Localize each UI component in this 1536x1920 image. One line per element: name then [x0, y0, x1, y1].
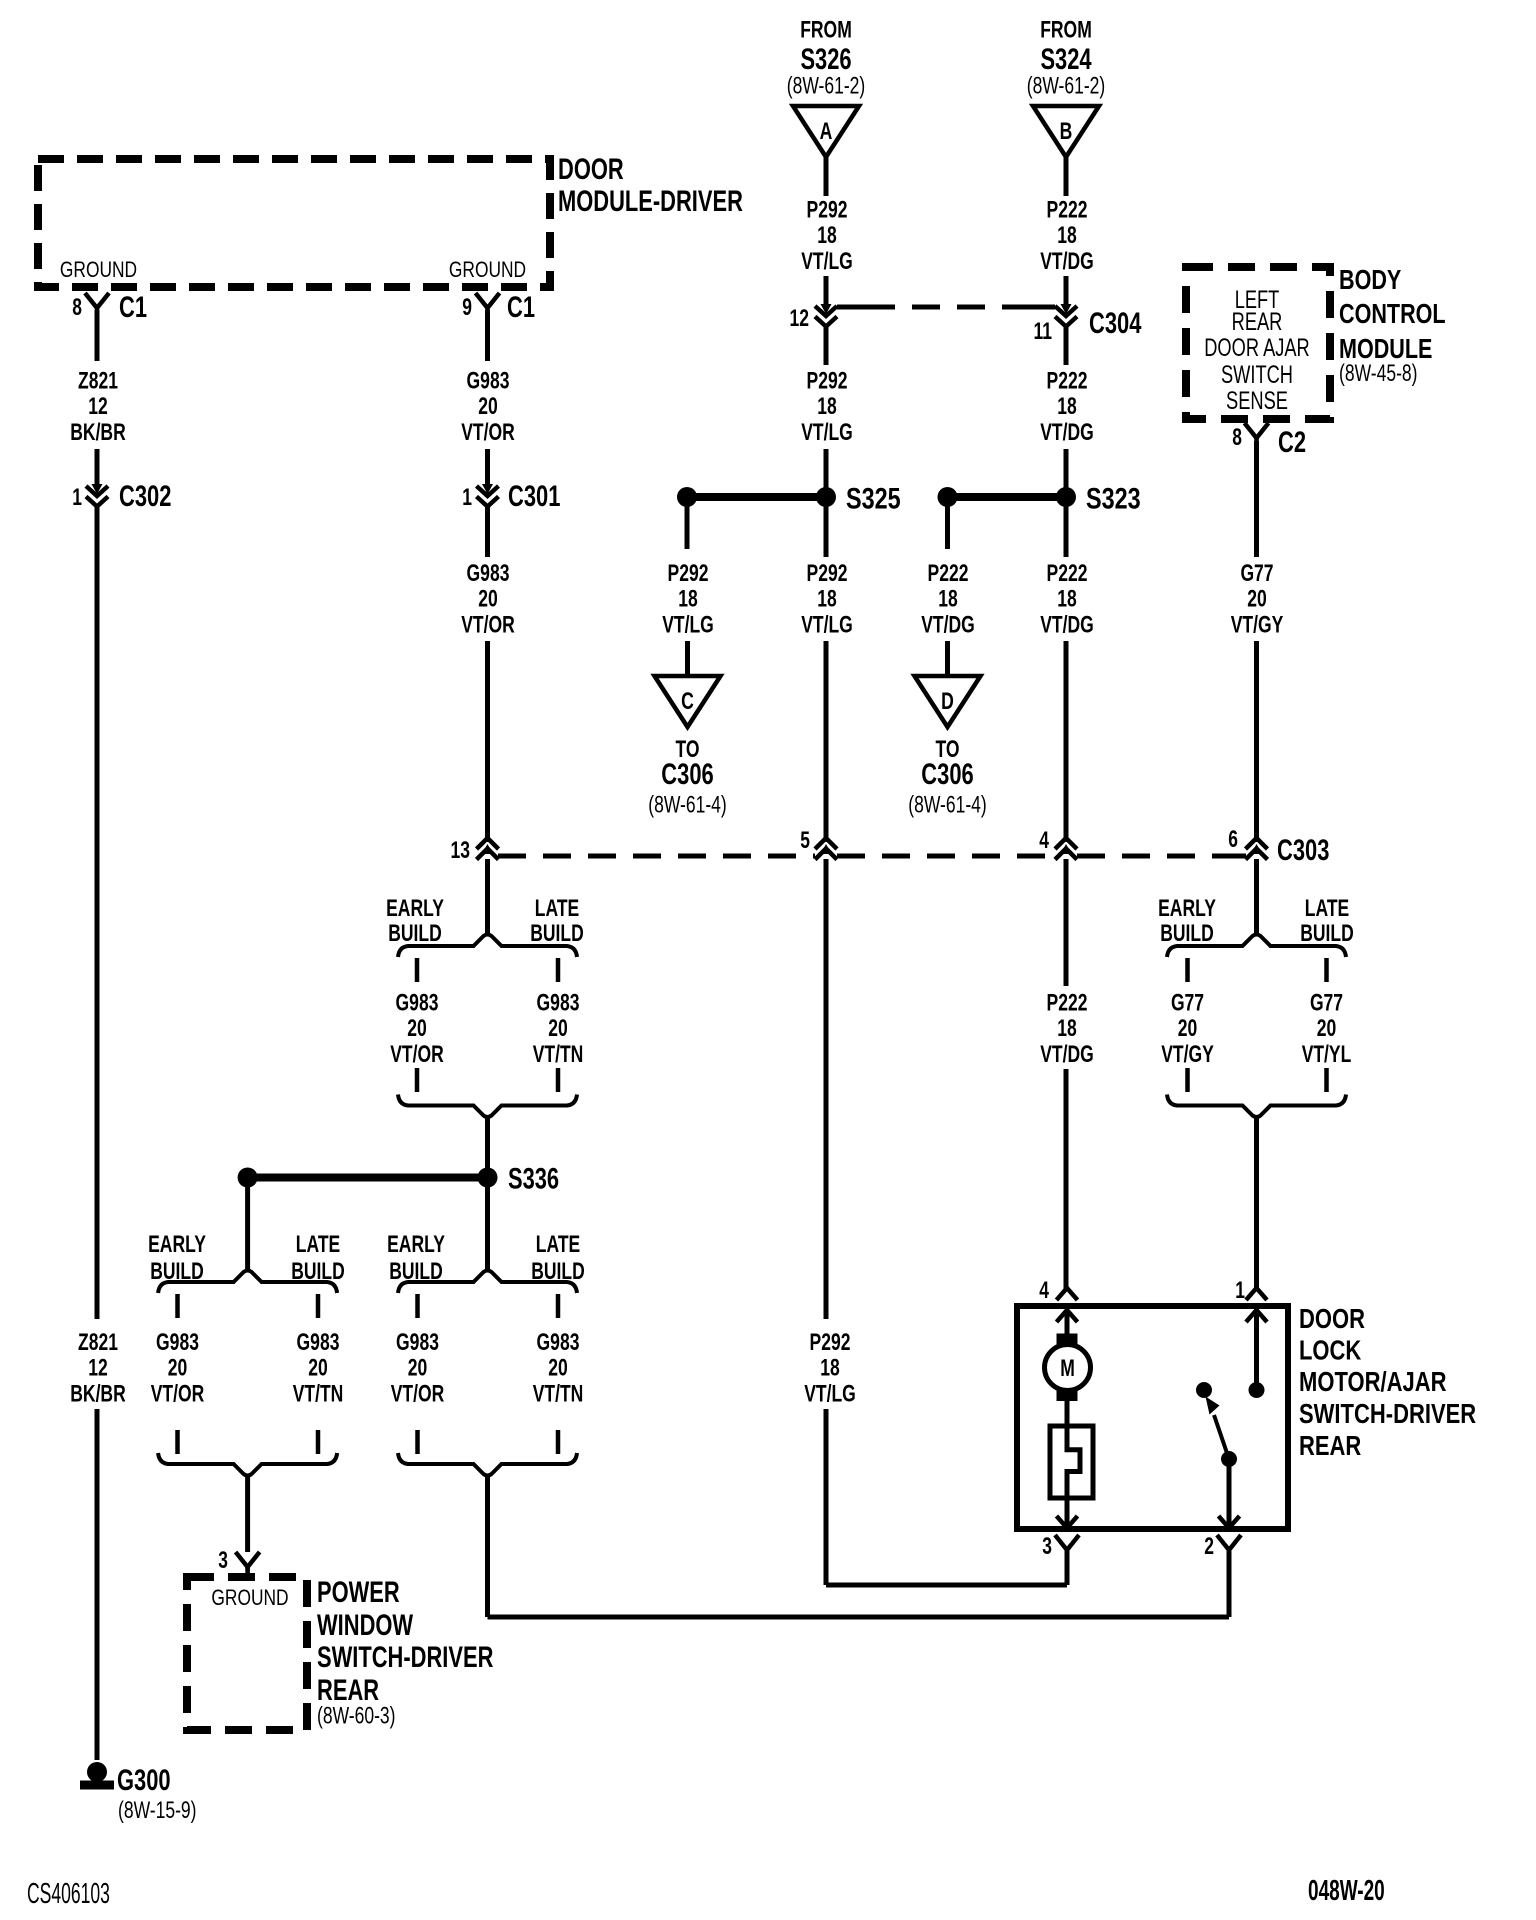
svg-text:20: 20: [1178, 1015, 1198, 1042]
svg-text:BODY: BODY: [1339, 264, 1402, 295]
svg-text:S336: S336: [508, 1163, 559, 1196]
splice S323: [938, 487, 958, 507]
svg-text:BK/BR: BK/BR: [70, 1380, 126, 1407]
svg-text:18: 18: [678, 586, 698, 613]
svg-text:C304: C304: [1089, 307, 1142, 340]
svg-text:3: 3: [1042, 1533, 1052, 1560]
wire P222 seg5: [1064, 641, 1069, 842]
svg-text:18: 18: [1057, 586, 1077, 613]
svg-text:G77: G77: [1240, 560, 1273, 587]
wire P222 seg7: [1064, 1069, 1069, 1289]
svg-text:REAR: REAR: [1299, 1430, 1361, 1461]
svg-text:VT/LG: VT/LG: [801, 248, 853, 275]
svg-text:P292: P292: [807, 197, 848, 224]
svg-text:P222: P222: [928, 560, 969, 587]
wire Z821 seg3: [95, 507, 100, 1319]
svg-text:(8W-15-9): (8W-15-9): [118, 1797, 197, 1824]
svg-text:SWITCH-DRIVER: SWITCH-DRIVER: [317, 1641, 494, 1674]
wire P292 seg3: [824, 327, 829, 365]
svg-text:12: 12: [790, 305, 810, 332]
svg-text:C302: C302: [119, 480, 171, 513]
wire S325 left stub: [685, 497, 690, 549]
brace split (S336 right): [398, 1271, 577, 1294]
brace merge (G77): [1167, 1095, 1346, 1118]
svg-text:LOCK: LOCK: [1299, 1335, 1361, 1366]
wire G983 seg1: [485, 310, 490, 361]
stub S336 r-late: [556, 1294, 561, 1318]
svg-text:(8W-61-2): (8W-61-2): [787, 73, 866, 100]
svg-text:SWITCH-DRIVER: SWITCH-DRIVER: [1299, 1398, 1476, 1429]
svg-text:1: 1: [462, 484, 472, 511]
svg-text:BUILD: BUILD: [388, 920, 442, 947]
svg-text:C: C: [681, 688, 694, 715]
svg-text:4: 4: [1039, 827, 1049, 854]
svg-text:WINDOW: WINDOW: [317, 1609, 414, 1642]
svg-text:MODULE-DRIVER: MODULE-DRIVER: [558, 185, 743, 218]
svg-text:LATE: LATE: [536, 1231, 580, 1258]
svg-text:G77: G77: [1171, 990, 1204, 1017]
svg-text:18: 18: [817, 222, 837, 249]
svg-text:VT/GY: VT/GY: [1231, 611, 1284, 638]
ground G300 symbol: [87, 1762, 107, 1782]
wire to pin3 ground: [245, 1477, 250, 1552]
svg-text:BUILD: BUILD: [1300, 920, 1354, 947]
svg-text:LATE: LATE: [296, 1231, 340, 1258]
svg-text:C301: C301: [508, 480, 560, 513]
stub S336 l-late lower: [316, 1430, 321, 1454]
stub G77 late lower: [1324, 1068, 1329, 1092]
svg-text:MOTOR/AJAR: MOTOR/AJAR: [1299, 1366, 1447, 1397]
svg-text:G983: G983: [297, 1329, 340, 1356]
svg-text:VT/LG: VT/LG: [804, 1380, 856, 1407]
wire stub early G983: [415, 958, 420, 982]
svg-text:G983: G983: [396, 990, 439, 1017]
stub S336 r-early lower: [415, 1430, 420, 1454]
connector pin 3 (power window): [236, 1552, 260, 1567]
wire S336 left stub: [245, 1177, 250, 1270]
wire pin2 inside box: [1227, 1465, 1232, 1526]
svg-text:VT/OR: VT/OR: [461, 419, 515, 446]
svg-text:BUILD: BUILD: [531, 1258, 585, 1285]
svg-text:(8W-61-4): (8W-61-4): [648, 792, 727, 819]
wire G77 seg1: [1254, 441, 1259, 557]
connector C1 pin 8 (Y): [85, 293, 109, 308]
svg-text:P292: P292: [810, 1329, 851, 1356]
svg-text:VT/DG: VT/DG: [1040, 248, 1094, 275]
svg-text:FROM: FROM: [1040, 17, 1092, 44]
svg-text:VT/OR: VT/OR: [461, 611, 515, 638]
connector C304 pin 12: [821, 304, 832, 314]
wire pin3 inside box: [1065, 1498, 1070, 1526]
motor M (door lock): [1065, 1310, 1070, 1334]
wire P222 seg3: [1064, 327, 1069, 365]
svg-text:20: 20: [548, 1355, 568, 1382]
module box DOOR LOCK MOTOR/AJAR SWITCH-DRIVER REAR: [1017, 1306, 1288, 1529]
svg-text:18: 18: [1057, 393, 1077, 420]
svg-text:C303: C303: [1277, 834, 1329, 867]
wire Z821 seg1: [95, 310, 100, 361]
svg-text:C306: C306: [921, 758, 973, 791]
connector C303 pin 13: [482, 844, 493, 854]
svg-text:A: A: [820, 118, 833, 145]
svg-text:6: 6: [1228, 826, 1238, 853]
svg-text:20: 20: [1317, 1015, 1337, 1042]
svg-text:C306: C306: [661, 758, 713, 791]
stub G77 early lower: [1185, 1068, 1190, 1092]
svg-text:FROM: FROM: [800, 17, 852, 44]
wire G77 seg4: [1254, 1118, 1259, 1289]
svg-text:20: 20: [548, 1015, 568, 1042]
svg-text:C1: C1: [119, 291, 147, 324]
svg-text:048W-20: 048W-20: [1308, 1875, 1385, 1907]
stub S336 l-early lower: [175, 1430, 180, 1454]
svg-text:VT/LG: VT/LG: [801, 611, 853, 638]
svg-text:BK/BR: BK/BR: [70, 419, 126, 446]
svg-text:BUILD: BUILD: [530, 920, 584, 947]
svg-text:18: 18: [1057, 1015, 1077, 1042]
svg-text:P292: P292: [807, 560, 848, 587]
svg-text:P222: P222: [1047, 560, 1088, 587]
svg-text:S326: S326: [800, 43, 851, 76]
svg-text:EARLY: EARLY: [148, 1231, 206, 1258]
svg-text:DOOR: DOOR: [1299, 1303, 1365, 1334]
wire P222 seg1: [1064, 157, 1069, 196]
svg-text:18: 18: [820, 1355, 840, 1382]
stub S336 r-late lower: [556, 1430, 561, 1454]
svg-text:EARLY: EARLY: [1158, 895, 1216, 922]
svg-text:20: 20: [407, 1015, 427, 1042]
svg-text:P222: P222: [1047, 368, 1088, 395]
wire P222 seg6: [1064, 859, 1069, 986]
svg-text:CONTROL: CONTROL: [1339, 298, 1446, 329]
svg-text:11: 11: [1034, 318, 1053, 345]
svg-text:SWITCH: SWITCH: [1221, 361, 1293, 389]
stub G77 late: [1324, 958, 1329, 982]
svg-text:BUILD: BUILD: [1160, 920, 1214, 947]
svg-text:20: 20: [408, 1355, 428, 1382]
wire P292 seg6: [824, 859, 829, 1319]
svg-text:VT/DG: VT/DG: [1040, 611, 1094, 638]
svg-text:18: 18: [817, 393, 837, 420]
svg-text:G983: G983: [467, 560, 510, 587]
wire P292 seg7: [824, 1409, 829, 1585]
svg-text:G983: G983: [537, 990, 580, 1017]
off-page arrow B: [1033, 106, 1099, 157]
svg-text:S324: S324: [1040, 43, 1091, 76]
stub S336 l-late: [316, 1294, 321, 1318]
wire P292 seg4: [824, 449, 829, 557]
connector C303 pin 5: [821, 844, 832, 854]
wire to S336: [485, 1118, 490, 1177]
brace merge (G983): [398, 1095, 577, 1118]
svg-text:DOOR: DOOR: [558, 153, 624, 186]
module box DOOR MODULE-DRIVER (dashed): [38, 159, 550, 287]
svg-text:VT/TN: VT/TN: [293, 1380, 344, 1407]
connector C304 pin 11: [1061, 304, 1072, 314]
svg-text:18: 18: [817, 586, 837, 613]
svg-text:G77: G77: [1310, 990, 1343, 1017]
stub G77 early: [1185, 958, 1190, 982]
connector C1 pin 9 (Y): [476, 293, 500, 308]
wire P292 seg5: [824, 641, 829, 842]
wire G77 seg2: [1254, 641, 1259, 842]
svg-text:2: 2: [1204, 1533, 1214, 1560]
connector C303 pin 6: [1251, 844, 1262, 854]
wire S323 left stub: [945, 497, 950, 549]
svg-text:20: 20: [308, 1355, 328, 1382]
svg-text:REAR: REAR: [1232, 308, 1283, 336]
svg-text:VT/DG: VT/DG: [1040, 419, 1094, 446]
wire stub late G983: [556, 958, 561, 982]
svg-text:G300: G300: [117, 1764, 171, 1797]
wire P222 seg2: [1064, 276, 1069, 308]
svg-text:VT/OR: VT/OR: [151, 1380, 205, 1407]
brace split (G983 early/late): [398, 935, 577, 958]
svg-text:C1: C1: [507, 291, 535, 324]
svg-text:GROUND: GROUND: [449, 257, 526, 282]
connector pin 4 (door lock): [1057, 1288, 1078, 1300]
off-page arrow D: [915, 676, 981, 727]
svg-text:SENSE: SENSE: [1226, 387, 1288, 415]
brace split (S336 left): [158, 1271, 337, 1294]
off-page arrow A: [793, 106, 859, 157]
wire stub early G983 lower: [415, 1068, 420, 1092]
splice S325: [677, 487, 697, 507]
svg-text:G983: G983: [156, 1329, 199, 1356]
svg-text:VT/TN: VT/TN: [533, 1380, 584, 1407]
svg-text:(8W-60-3): (8W-60-3): [317, 1703, 396, 1730]
chevron pin 3 bottom: [1057, 1516, 1078, 1528]
svg-text:4: 4: [1039, 1277, 1049, 1304]
off-page arrow C: [655, 676, 721, 727]
svg-text:20: 20: [168, 1355, 188, 1382]
splice S336: [238, 1168, 258, 1188]
svg-text:BUILD: BUILD: [291, 1258, 345, 1285]
svg-text:B: B: [1060, 118, 1073, 145]
svg-text:P222: P222: [1047, 990, 1088, 1017]
svg-text:Z821: Z821: [78, 368, 118, 395]
wire stub late G983 lower: [556, 1068, 561, 1092]
connector C2 pin 8 (Y): [1245, 423, 1269, 438]
wire to triangle D: [945, 641, 950, 676]
svg-text:G983: G983: [467, 368, 510, 395]
wire P292 seg1: [824, 157, 829, 196]
svg-text:M: M: [1060, 1355, 1075, 1382]
svg-text:18: 18: [938, 586, 958, 613]
svg-text:9: 9: [462, 294, 472, 321]
wire elbow to pin 3 (door lock): [826, 1583, 1067, 1588]
svg-text:VT/OR: VT/OR: [391, 1380, 445, 1407]
connector pin 3 Y (door lock): [1055, 1535, 1079, 1550]
module box POWER WINDOW SWITCH-DRIVER REAR (dashed): [187, 1577, 307, 1730]
wire G77 seg3: [1254, 859, 1259, 936]
wire P292 seg2: [824, 276, 829, 308]
svg-text:DOOR AJAR: DOOR AJAR: [1204, 334, 1310, 362]
wire P222 seg4: [1064, 449, 1069, 557]
wire S336 right to elbow: [485, 1477, 490, 1617]
svg-text:8: 8: [1232, 424, 1242, 451]
svg-text:EARLY: EARLY: [387, 1231, 445, 1258]
svg-text:G983: G983: [396, 1329, 439, 1356]
svg-text:P292: P292: [668, 560, 709, 587]
svg-text:8: 8: [72, 294, 82, 321]
svg-text:3: 3: [218, 1547, 228, 1574]
module box BODY CONTROL MODULE (dashed): [1186, 267, 1330, 419]
svg-text:VT/LG: VT/LG: [662, 611, 714, 638]
svg-text:VT/DG: VT/DG: [1040, 1041, 1094, 1068]
svg-text:1: 1: [1235, 1277, 1245, 1304]
connector C301 pin 1: [482, 484, 493, 494]
svg-text:12: 12: [88, 1355, 108, 1382]
wire S336 right stub: [485, 1177, 490, 1270]
chevron pin 2 bottom: [1219, 1516, 1240, 1528]
svg-text:LATE: LATE: [535, 895, 579, 922]
svg-text:12: 12: [88, 393, 108, 420]
svg-text:S325: S325: [846, 483, 901, 516]
svg-text:GROUND: GROUND: [211, 1585, 288, 1610]
svg-text:LATE: LATE: [1305, 895, 1349, 922]
brace split (G77): [1167, 935, 1346, 958]
svg-text:G983: G983: [537, 1329, 580, 1356]
wire to triangle C: [685, 641, 690, 676]
wire G983 seg2: [485, 449, 490, 487]
wire G983 seg5: [485, 859, 490, 936]
svg-text:5: 5: [800, 827, 810, 854]
svg-text:20: 20: [478, 586, 498, 613]
svg-text:EARLY: EARLY: [386, 895, 444, 922]
ajar switch actuator box: [1050, 1426, 1093, 1498]
svg-text:S323: S323: [1086, 483, 1141, 516]
svg-text:18: 18: [1057, 222, 1077, 249]
svg-text:CS406103: CS406103: [27, 1878, 110, 1910]
dashed link C304: [837, 305, 867, 310]
svg-text:(8W-61-4): (8W-61-4): [908, 792, 987, 819]
connector C303 pin 4: [1061, 844, 1072, 854]
svg-text:VT/GY: VT/GY: [1161, 1041, 1214, 1068]
brace merge (S336 right): [398, 1453, 577, 1476]
svg-text:BUILD: BUILD: [389, 1258, 443, 1285]
svg-text:GROUND: GROUND: [60, 257, 137, 282]
svg-text:P292: P292: [807, 368, 848, 395]
svg-text:C2: C2: [1278, 426, 1306, 459]
svg-text:1: 1: [72, 484, 82, 511]
svg-text:POWER: POWER: [317, 1576, 400, 1609]
svg-text:13: 13: [451, 837, 471, 864]
stub S336 r-early: [415, 1294, 420, 1318]
svg-text:20: 20: [478, 393, 498, 420]
wire Z821 seg4: [95, 1409, 100, 1760]
svg-text:(8W-45-8): (8W-45-8): [1339, 360, 1418, 387]
svg-text:VT/TN: VT/TN: [533, 1041, 584, 1068]
svg-text:20: 20: [1247, 586, 1267, 613]
switch arm and contacts: [1196, 1382, 1212, 1398]
wire G983 seg3: [485, 507, 490, 557]
svg-text:VT/DG: VT/DG: [921, 611, 975, 638]
svg-text:VT/YL: VT/YL: [1302, 1041, 1352, 1068]
connector C302 pin 1: [92, 484, 103, 494]
svg-text:VT/LG: VT/LG: [801, 419, 853, 446]
svg-text:VT/OR: VT/OR: [390, 1041, 444, 1068]
svg-text:D: D: [941, 688, 954, 715]
connector pin 2 Y (door lock): [1217, 1535, 1241, 1550]
dashed link C303: [498, 854, 815, 859]
connector pin 1 (door lock): [1246, 1288, 1267, 1300]
wire Z821 seg2: [95, 449, 100, 487]
svg-text:Z821: Z821: [78, 1329, 118, 1356]
wire elbow to pin 2: [488, 1615, 1230, 1620]
svg-text:P222: P222: [1047, 197, 1088, 224]
stub S336 l-early: [175, 1294, 180, 1318]
brace merge (S336 left): [158, 1453, 337, 1476]
svg-text:BUILD: BUILD: [150, 1258, 204, 1285]
wire G983 seg4: [485, 641, 490, 842]
svg-text:(8W-61-2): (8W-61-2): [1027, 73, 1106, 100]
